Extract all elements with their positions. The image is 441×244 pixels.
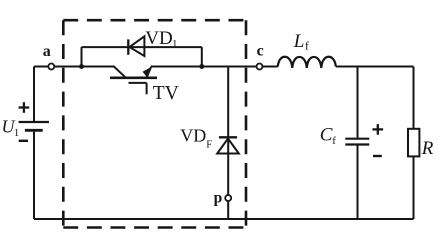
wire left vertical from battery negative plate to bottom rail <box>33 131 35 219</box>
capacitor Cf top plate <box>345 138 369 140</box>
capacitor plus sign <box>373 124 384 135</box>
freewheel diode VDF triangle <box>217 139 239 154</box>
transistor TV gate horizontal <box>129 82 147 84</box>
svg-text:p: p <box>214 189 223 206</box>
transistor TV emitter angled lead <box>147 67 151 78</box>
wire diode VD1 branch left riser <box>81 47 83 66</box>
node c <box>257 64 263 70</box>
wire top segment from transistor emitter to inductor start <box>151 66 278 68</box>
wire top-left segment from source corner through node a to transistor collector <box>34 66 115 68</box>
wire freewheel diode branch vertical p-line <box>227 67 229 220</box>
wire left vertical from corner a-side down to battery positive plate <box>33 67 35 122</box>
junction dot left of diode branch <box>79 64 84 69</box>
svg-text:VD: VD <box>145 28 172 49</box>
node a <box>48 64 54 70</box>
svg-text:L: L <box>293 31 305 52</box>
svg-text:TV: TV <box>153 83 179 104</box>
battery U1 negative short plate <box>25 129 43 132</box>
node p <box>225 195 231 201</box>
wire capacitor branch lower <box>357 145 359 219</box>
svg-text:VD: VD <box>180 126 206 146</box>
wire diode VD1 branch right riser <box>201 47 203 66</box>
capacitor minus sign <box>373 155 382 157</box>
wire right vertical from corner to resistor top <box>413 67 415 130</box>
freewheel diode VDF cathode bar <box>219 136 237 138</box>
wire capacitor branch upper <box>357 67 359 138</box>
battery U1 positive long plate <box>19 121 49 123</box>
svg-text:R: R <box>421 138 434 159</box>
battery plus sign <box>19 102 30 113</box>
svg-text:1: 1 <box>172 38 178 50</box>
transistor TV base bar <box>110 76 157 79</box>
transistor TV collector angled lead <box>114 67 126 78</box>
transistor TV emitter arrow <box>143 67 152 78</box>
junction dot right of diode branch <box>199 64 204 69</box>
inductor Lf winding <box>278 57 336 68</box>
svg-text:1: 1 <box>14 127 19 139</box>
transistor TV gate vertical lead <box>146 83 148 94</box>
svg-text:F: F <box>206 139 212 150</box>
battery minus sign <box>19 140 28 142</box>
dashed chopper block box <box>63 20 246 227</box>
svg-text:c: c <box>257 43 264 60</box>
wire bottom rail <box>34 218 414 220</box>
wire top segment from inductor end to top-right corner <box>336 66 414 68</box>
capacitor Cf bottom plate <box>345 143 369 145</box>
resistor R body <box>408 129 419 157</box>
wire diode VD1 branch top horizontal <box>82 46 202 48</box>
diode VD1 triangle <box>130 36 145 56</box>
diode VD1 cathode bar <box>127 39 129 54</box>
wire right vertical from resistor bottom to rail <box>413 156 415 219</box>
svg-text:a: a <box>43 43 51 60</box>
svg-text:f: f <box>305 39 309 53</box>
svg-text:C: C <box>320 125 333 146</box>
svg-text:f: f <box>332 135 336 147</box>
